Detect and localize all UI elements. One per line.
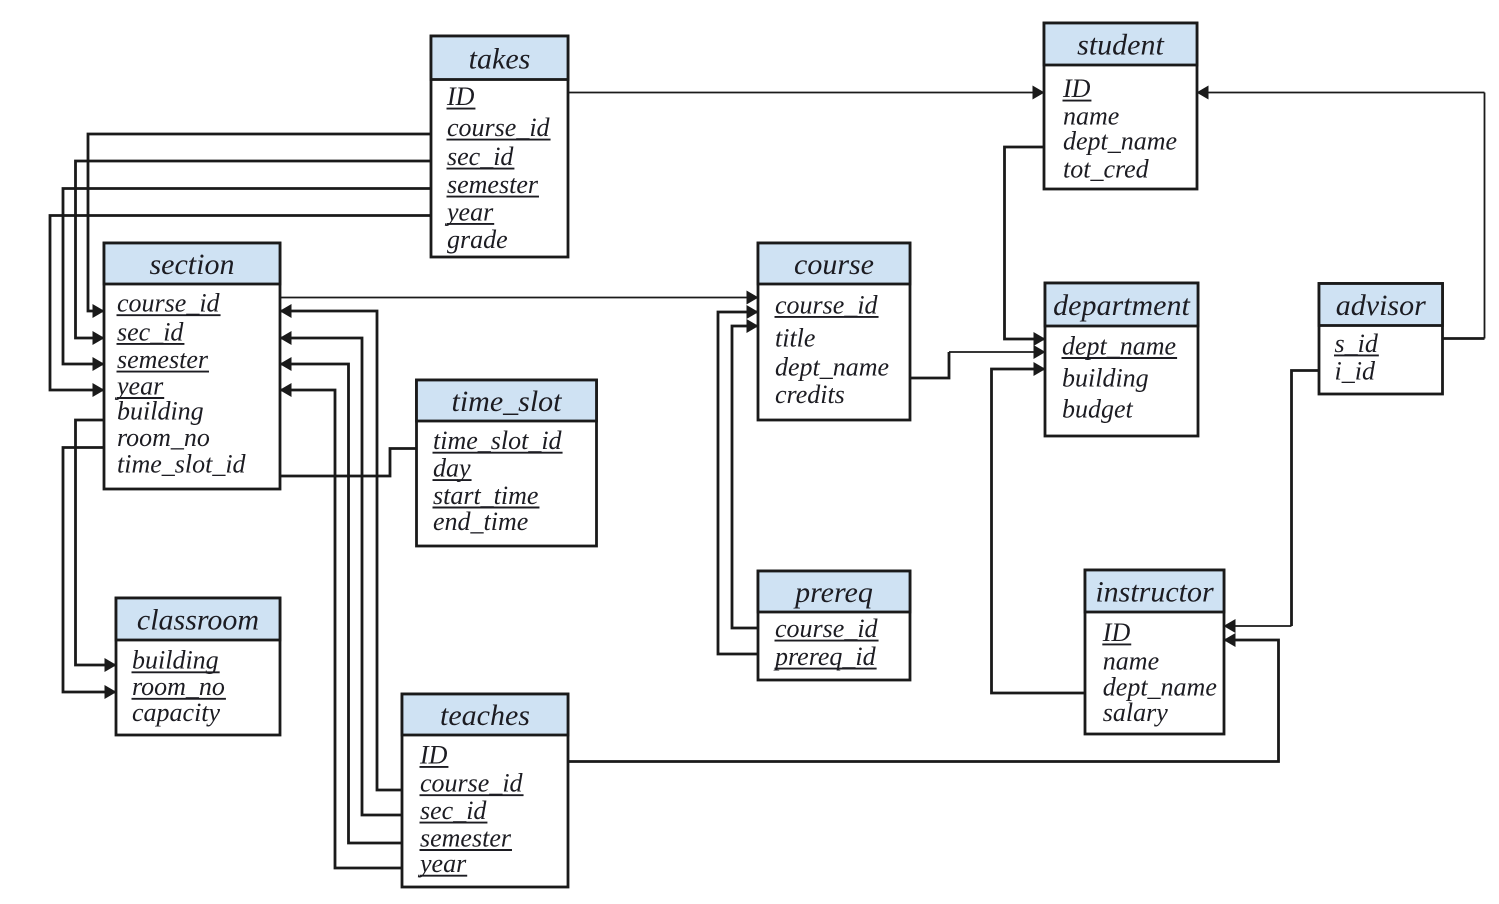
- svg-text:year: year: [444, 197, 494, 226]
- svg-text:ID: ID: [446, 82, 475, 111]
- svg-text:prereq: prereq: [793, 576, 873, 609]
- svg-text:student: student: [1077, 29, 1164, 62]
- svg-text:i_id: i_id: [1335, 356, 1376, 385]
- svg-text:credits: credits: [775, 380, 845, 409]
- svg-text:classroom: classroom: [137, 604, 259, 637]
- svg-text:s_id: s_id: [1335, 329, 1379, 358]
- svg-text:prereq_id: prereq_id: [773, 642, 877, 671]
- svg-text:room_no: room_no: [132, 672, 225, 701]
- svg-text:day: day: [433, 454, 471, 483]
- svg-text:building: building: [1062, 364, 1149, 393]
- svg-text:time_slot: time_slot: [452, 385, 563, 418]
- svg-text:capacity: capacity: [132, 698, 221, 727]
- svg-text:course_id: course_id: [420, 769, 524, 798]
- svg-text:year: year: [417, 849, 467, 878]
- svg-text:room_no: room_no: [117, 423, 210, 452]
- svg-text:course_id: course_id: [117, 289, 221, 318]
- svg-text:course_id: course_id: [775, 614, 879, 643]
- svg-text:sec_id: sec_id: [117, 317, 184, 346]
- svg-text:title: title: [775, 323, 815, 352]
- svg-text:dept_name: dept_name: [775, 353, 889, 382]
- svg-text:salary: salary: [1103, 698, 1168, 727]
- svg-text:advisor: advisor: [1336, 289, 1426, 322]
- svg-text:dept_name: dept_name: [1063, 127, 1177, 156]
- svg-text:course: course: [794, 248, 874, 281]
- svg-text:time_slot_id: time_slot_id: [117, 450, 247, 479]
- svg-text:teaches: teaches: [440, 699, 530, 732]
- svg-text:dept_name: dept_name: [1062, 331, 1176, 360]
- svg-text:sec_id: sec_id: [420, 796, 487, 825]
- svg-text:building: building: [117, 397, 204, 426]
- svg-text:department: department: [1053, 289, 1190, 322]
- svg-text:instructor: instructor: [1095, 576, 1214, 609]
- svg-text:semester: semester: [447, 170, 539, 199]
- svg-text:semester: semester: [117, 345, 209, 374]
- svg-text:end_time: end_time: [433, 507, 528, 536]
- svg-text:semester: semester: [420, 823, 512, 852]
- svg-text:course_id: course_id: [447, 113, 551, 142]
- svg-text:time_slot_id: time_slot_id: [433, 426, 563, 455]
- svg-text:section: section: [150, 248, 235, 281]
- svg-text:sec_id: sec_id: [447, 142, 514, 171]
- svg-text:building: building: [132, 646, 219, 675]
- svg-text:takes: takes: [469, 42, 531, 75]
- svg-text:tot_cred: tot_cred: [1063, 154, 1150, 183]
- svg-text:course_id: course_id: [775, 290, 879, 319]
- svg-text:budget: budget: [1062, 394, 1134, 423]
- svg-text:ID: ID: [419, 740, 448, 769]
- svg-text:grade: grade: [447, 225, 508, 254]
- svg-text:name: name: [1103, 647, 1159, 676]
- svg-text:ID: ID: [1102, 618, 1131, 647]
- svg-text:start_time: start_time: [433, 481, 538, 510]
- svg-text:ID: ID: [1062, 74, 1091, 103]
